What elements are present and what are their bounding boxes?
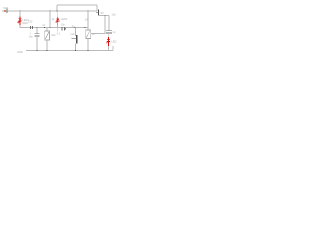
svg-text:LED: LED — [111, 40, 116, 44]
node dot midline R2 — [84, 27, 86, 29]
svg-text:10n: 10n — [61, 23, 66, 27]
node dot midline R1b — [49, 27, 51, 29]
wire LED1 bottom pin — [19, 25, 21, 28]
node dot midline R1a — [44, 27, 46, 29]
wire R1 top pin — [46, 28, 48, 32]
svg-text:LED2: LED2 — [61, 17, 68, 21]
node dot rail A / LED1 — [19, 10, 21, 12]
wire rail end corner — [112, 46, 114, 51]
wire top rail B — [57, 4, 97, 6]
capacitor C4 polarized — [72, 35, 78, 43]
capacitor C2 — [34, 34, 39, 36]
svg-text:9V: 9V — [101, 11, 104, 15]
wire C5 top pin — [108, 16, 110, 31]
capacitor C3 inline — [62, 27, 66, 31]
wire C4 bottom pin — [75, 44, 77, 51]
wire LED2 bottom pin — [57, 25, 59, 28]
node dot rail A / R2 — [87, 10, 89, 12]
capacitor C1 inline — [30, 26, 32, 29]
wire R2 rail drop — [87, 11, 89, 30]
node dot rail A / LED2 — [56, 10, 58, 12]
wire R1 rail drop — [49, 11, 51, 28]
capacitor C5 — [106, 31, 112, 33]
wire LED2 top pin — [56, 11, 58, 18]
wire C4 top pin — [75, 28, 77, 37]
wire top rail A — [2, 10, 97, 12]
wire C5 bottom pin — [108, 33, 110, 37]
LED D2 — [55, 17, 59, 25]
svg-text:GND: GND — [17, 50, 23, 54]
battery B1 — [96, 9, 99, 15]
svg-text:1uF: 1uF — [70, 32, 75, 36]
svg-text:SW1: SW1 — [3, 6, 9, 10]
svg-text:0.1: 0.1 — [57, 32, 61, 36]
connector J1 on rail A — [4, 9, 7, 13]
wire C2 bottom pin — [36, 36, 38, 50]
wire R2 side link — [91, 16, 106, 34]
svg-text:10k: 10k — [51, 33, 56, 37]
wire rail B left drop — [56, 5, 58, 11]
wire battery bottom run — [98, 14, 109, 17]
wire LED3 bottom pin — [108, 46, 110, 51]
node dot bottom R2 — [87, 50, 89, 52]
node dot bottom R1 — [46, 50, 48, 52]
wire rail B right drop — [96, 5, 98, 11]
node dot bat run — [104, 15, 106, 17]
LED D3 — [106, 37, 110, 46]
node dot bottom C4 — [75, 50, 77, 52]
svg-text:10k: 10k — [85, 18, 90, 22]
node dot bottom C2 — [36, 50, 38, 52]
wire R2 bottom pin — [87, 39, 89, 51]
svg-text:150: 150 — [28, 19, 33, 23]
resistor R2 — [86, 30, 91, 39]
wire LED1 top pin — [19, 11, 21, 18]
wire LED2 stub — [57, 28, 59, 32]
svg-text:10u: 10u — [112, 13, 117, 17]
node dot midline Q1 — [74, 27, 76, 29]
wire bottom rail — [26, 50, 113, 52]
wire midline — [20, 27, 88, 29]
wire R1 bottom pin — [46, 40, 48, 50]
node dot rail A / R1 — [49, 10, 51, 12]
wire C2 top pin — [36, 28, 38, 34]
LED D1 — [17, 16, 21, 25]
resistor R1 — [45, 31, 50, 40]
svg-text:10u: 10u — [29, 35, 34, 39]
node dot midline C2 — [36, 27, 38, 29]
